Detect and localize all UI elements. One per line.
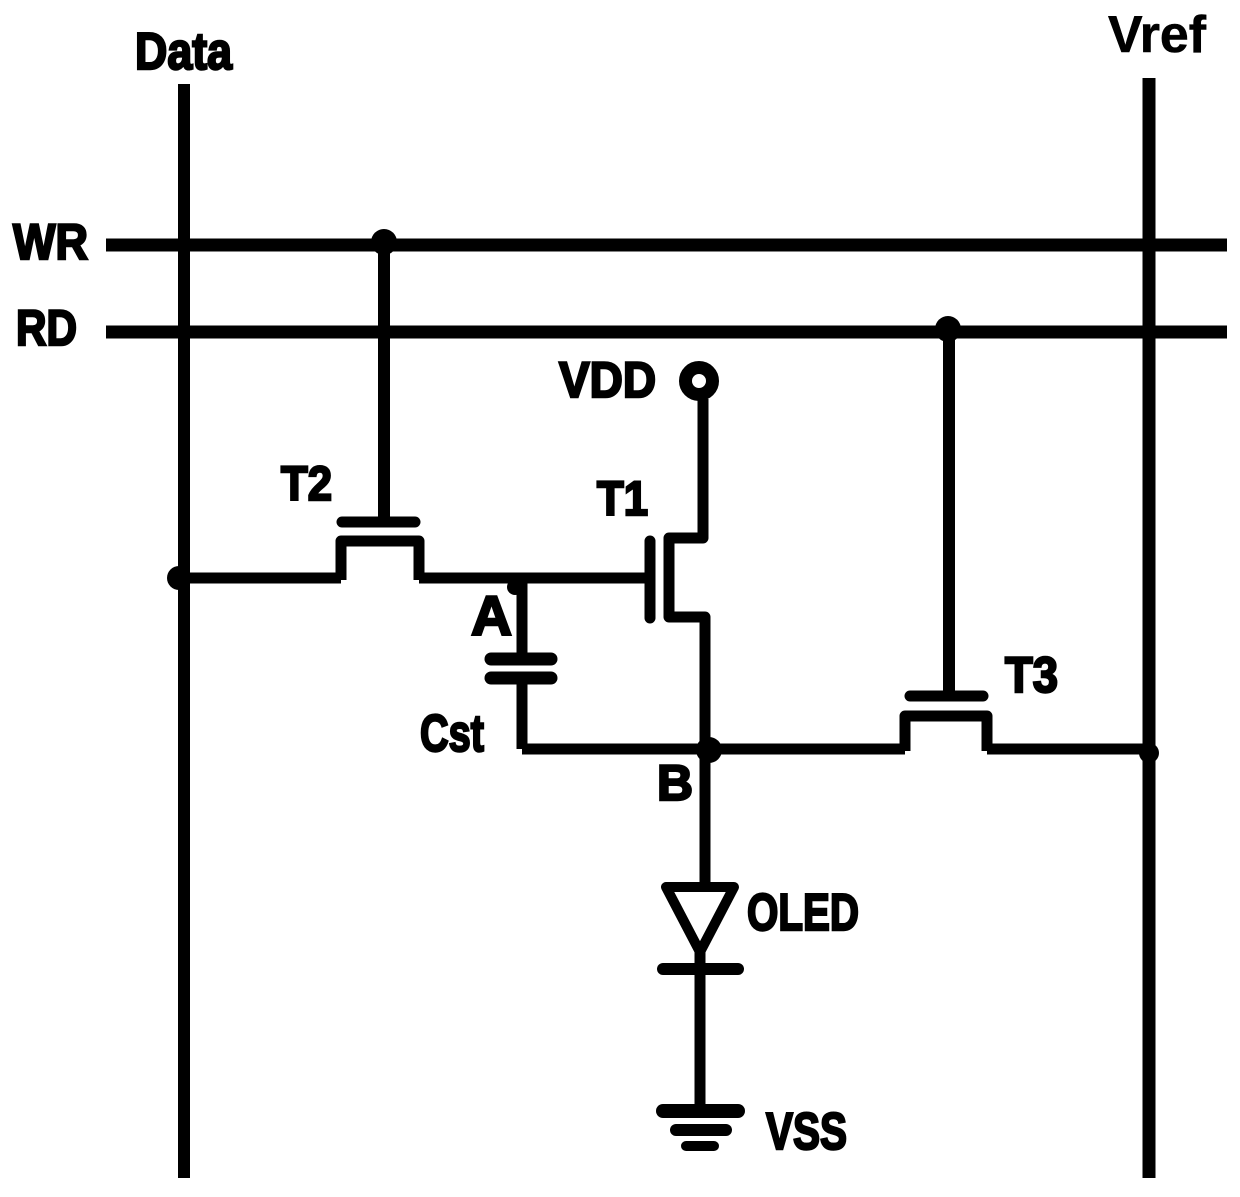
svg-text:A: A <box>471 584 512 647</box>
svg-text:B: B <box>657 755 693 811</box>
svg-text:T1: T1 <box>597 473 648 526</box>
svg-text:VDD: VDD <box>559 352 656 408</box>
svg-text:Cst: Cst <box>420 705 484 763</box>
svg-text:T2: T2 <box>281 458 332 511</box>
svg-text:Vref: Vref <box>1108 6 1207 64</box>
svg-text:Data: Data <box>135 23 233 81</box>
svg-text:VSS: VSS <box>766 1103 847 1161</box>
svg-text:T3: T3 <box>1005 647 1058 703</box>
svg-text:WR: WR <box>13 214 88 270</box>
svg-text:RD: RD <box>16 300 77 356</box>
svg-text:OLED: OLED <box>747 884 859 942</box>
